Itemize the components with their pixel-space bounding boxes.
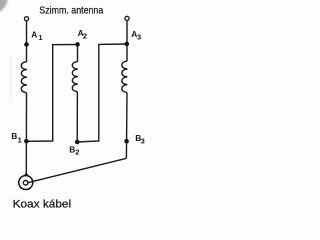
wire: middle branch bottom	[76, 92, 78, 142]
node A1	[24, 42, 29, 47]
terminal right (open circle)	[125, 16, 129, 20]
svg-text:2: 2	[75, 148, 79, 157]
label A3	[131, 29, 141, 42]
label B3	[135, 133, 145, 145]
wire: left branch bottom (coil to coax)	[25, 93, 27, 175]
wire: harness B1 to A2	[26, 45, 77, 142]
scan artifact corner shade	[0, 0, 8, 12]
label: Koax kábel	[13, 198, 72, 210]
terminal left (open circle)	[24, 17, 28, 21]
label B1	[11, 131, 21, 145]
coax connector	[19, 176, 33, 190]
junction dot at coax shield	[25, 173, 28, 176]
svg-text:1: 1	[18, 136, 22, 145]
scan artifact left streak	[10, 56, 13, 102]
svg-text:2: 2	[83, 32, 87, 41]
svg-text:1: 1	[38, 33, 42, 42]
inductor L2 (middle coil)	[72, 62, 78, 92]
inductor L1 (left coil)	[21, 62, 27, 93]
wire: right branch bottom	[125, 93, 128, 159]
wire: left branch top (terminal to coil)	[26, 21, 28, 62]
wire: diagonal coax center to B3 branch	[28, 158, 126, 182]
svg-text:3: 3	[141, 136, 145, 145]
label A2	[78, 28, 87, 41]
node B3	[124, 139, 129, 144]
svg-text:3: 3	[137, 33, 141, 42]
wire: harness B2 to A3	[77, 44, 127, 142]
label: Szimm. antenna	[39, 6, 103, 17]
label B2	[69, 144, 79, 156]
svg-text:A: A	[31, 30, 37, 40]
inductor L3 (right coil)	[122, 61, 128, 92]
label A1	[31, 30, 42, 43]
svg-text:Koax kábel: Koax kábel	[13, 198, 72, 210]
wire: right branch top (terminal to coil)	[126, 21, 128, 62]
node B2	[75, 140, 80, 145]
svg-text:Szimm. antenna: Szimm. antenna	[39, 6, 103, 17]
node A3	[125, 42, 130, 47]
wire: middle branch top stub	[77, 44, 79, 61]
node A2	[75, 42, 80, 47]
node B1	[24, 139, 29, 144]
svg-text:B: B	[11, 131, 17, 141]
